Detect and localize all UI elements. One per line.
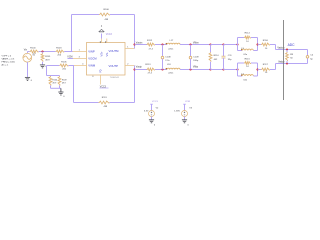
wire VOUTM jog: [134, 45, 136, 49]
wire feedback top-left vertical: [71, 15, 73, 52]
resistor R100: [30, 48, 39, 57]
wire ADC right edge: [307, 50, 309, 64]
inductor L4 parallel: [238, 70, 258, 82]
svg-text:C4: C4: [310, 55, 314, 57]
pin VINM stub: [74, 64, 87, 66]
svg-text:62n: 62n: [244, 80, 248, 82]
wire L17 to Vfiltm: [180, 44, 211, 46]
junction combo top-right: [256, 43, 258, 45]
source V3 1.65V: [174, 108, 192, 117]
svg-text:VOUTM: VOUTM: [109, 49, 120, 53]
op-amp part number: [92, 76, 119, 79]
svg-text:R113: R113: [145, 64, 151, 66]
wire L18 to Vfiltp: [180, 69, 211, 71]
junction C108 bottom: [161, 68, 163, 70]
junction combo top-left: [236, 43, 238, 45]
svg-text:R103: R103: [56, 48, 62, 50]
svg-text:49.9: 49.9: [45, 59, 50, 61]
svg-text:200: 200: [62, 68, 66, 70]
svg-text:10: 10: [246, 66, 249, 68]
svg-text:V3: V3: [189, 108, 192, 110]
svg-text:VAMPL = 0.5: VAMPL = 0.5: [2, 58, 15, 61]
resistor R101 termination: [41, 52, 51, 62]
capacitor C111: [222, 45, 233, 70]
svg-text:C109: C109: [193, 57, 199, 59]
svg-text:R116: R116: [263, 40, 269, 42]
wire R116 to ADC jog: [270, 45, 276, 50]
svg-text:3.3V: 3.3V: [144, 110, 149, 112]
wire top of 49.9 pair: [47, 75, 60, 78]
svg-text:R105: R105: [61, 62, 67, 64]
power label VCC3 at V2: [150, 101, 158, 110]
pin VOCM stub: [73, 57, 87, 59]
net label Vadcp: [278, 62, 285, 64]
svg-text:VS+: VS+: [100, 51, 104, 56]
pin VOUTP stub: [125, 64, 135, 66]
resistor R116: [261, 40, 270, 50]
resistor R9 ADC input: [286, 50, 294, 64]
power symbol VCC3: [99, 25, 113, 36]
svg-text:PD: PD: [99, 69, 102, 73]
wire V2 to ground: [151, 117, 153, 120]
svg-text:AC = 1: AC = 1: [2, 63, 10, 66]
svg-text:VS-: VS-: [105, 52, 109, 56]
junction combo bottom-left: [236, 68, 238, 70]
svg-text:L18: L18: [167, 64, 171, 66]
wire R112 to node: [155, 44, 167, 46]
svg-text:R110: R110: [214, 55, 220, 57]
svg-text:Vfiltm: Vfiltm: [193, 42, 199, 45]
wire to combo top: [224, 44, 238, 46]
svg-text:R111: R111: [102, 97, 108, 99]
op-amp U1 box: [87, 43, 126, 76]
svg-text:C108: C108: [165, 57, 171, 59]
svg-text:THS4541: THS4541: [110, 77, 120, 79]
svg-text:VCC3: VCC3: [100, 86, 107, 88]
resistor R117: [261, 64, 270, 74]
wire input net Vin: [28, 51, 30, 53]
svg-text:Voutp: Voutp: [136, 66, 143, 69]
svg-text:6: 6: [92, 76, 94, 78]
ground under V1: [25, 77, 33, 82]
svg-text:10: 10: [265, 72, 268, 74]
capacitor C108: [161, 45, 171, 70]
wire to C111 bottom: [211, 69, 224, 71]
junction C108 top: [161, 43, 163, 45]
capacitor C12 ADC: [306, 55, 314, 61]
svg-text:L17: L17: [170, 40, 174, 42]
wire bottom of 49.9 pair: [51, 86, 61, 92]
wire R113 to node: [155, 69, 167, 71]
svg-text:R115: R115: [245, 58, 251, 60]
resistor R112: [147, 40, 156, 50]
svg-text:220n: 220n: [168, 49, 174, 51]
wire feedback bottom horizontal right: [110, 102, 135, 104]
wire R117 to ADC jog: [270, 64, 276, 70]
op-amp pin labels: [88, 49, 119, 73]
wire V1 bottom stub: [27, 62, 29, 77]
junction VOUTP: [133, 68, 135, 70]
wire R100 to junction: [39, 51, 56, 53]
ground under V3: [182, 120, 190, 127]
wire combo to R117: [258, 69, 262, 71]
resistor R103: [56, 48, 65, 57]
svg-text:VINP: VINP: [88, 49, 95, 53]
svg-text:R101: R101: [45, 56, 51, 58]
inductor L18: [166, 64, 180, 74]
wire R105 to VINM: [68, 65, 74, 67]
junction R110 bottom: [209, 68, 211, 70]
wire V1 top stub: [27, 52, 29, 54]
svg-text:R114: R114: [245, 33, 251, 35]
junction VOUTM: [133, 43, 135, 45]
junction combo bottom-right: [256, 68, 258, 70]
wire VOUTP jog: [134, 66, 136, 70]
svg-text:VCM: VCM: [185, 101, 190, 103]
inductor L3 parallel: [238, 45, 258, 57]
svg-text:ADC: ADC: [288, 43, 296, 47]
svg-text:1.65V: 1.65V: [174, 110, 180, 112]
svg-text:62n: 62n: [244, 54, 248, 56]
net label Vfiltm: [193, 42, 199, 45]
junction Vfiltm: [189, 43, 191, 45]
svg-text:0: 0: [63, 96, 65, 98]
net label Voutp: [136, 66, 143, 69]
svg-text:499: 499: [104, 106, 108, 108]
svg-text:R117: R117: [263, 64, 269, 66]
resistor R109: [58, 76, 68, 86]
svg-text:VCM: VCM: [67, 56, 72, 58]
wire VS+ to VCC3: [101, 34, 103, 39]
svg-text:C11: C11: [228, 55, 233, 57]
svg-text:+: +: [26, 54, 27, 56]
svg-text:Vfiltp: Vfiltp: [193, 66, 199, 69]
svg-text:VOFF = 0: VOFF = 0: [2, 56, 12, 58]
resistor R106 feedback: [99, 9, 110, 21]
net label VCC3 on PD pin: [100, 86, 109, 88]
net label Voutm: [136, 42, 143, 45]
svg-text:10: 10: [265, 48, 268, 50]
net label Vadcm: [277, 48, 284, 50]
wire to C111 top: [211, 44, 224, 46]
svg-text:VCC3: VCC3: [152, 101, 159, 103]
wire feedback bottom-right vertical: [134, 70, 136, 103]
resistor R104: [49, 76, 58, 86]
wire R101 to ground: [42, 62, 44, 65]
svg-text:49.9: 49.9: [52, 83, 57, 85]
svg-text:200: 200: [57, 55, 61, 57]
svg-text:27.4: 27.4: [149, 49, 154, 51]
junction Radc bottom: [286, 62, 288, 64]
pin VS- stub: [106, 39, 108, 43]
wire feedback top horizontal right: [110, 14, 135, 16]
svg-text:VOUTP: VOUTP: [109, 64, 119, 68]
junction C111 bottom: [222, 68, 224, 70]
ADC boundary line: [283, 20, 285, 100]
resistor R105: [59, 62, 68, 71]
source V2 3.3V: [144, 108, 159, 117]
junction Radc top: [286, 48, 288, 50]
svg-text:FREQ = 100k: FREQ = 100k: [2, 61, 16, 63]
pin VS+ stub: [101, 39, 103, 43]
svg-text:R106: R106: [104, 9, 110, 11]
resistor R115 parallel: [238, 58, 258, 69]
pin arrow marks: [100, 41, 107, 43]
svg-text:50: 50: [290, 58, 293, 60]
wire R105 left corner: [47, 66, 60, 76]
wire feedback top horizontal left: [72, 14, 100, 16]
svg-text:27.4: 27.4: [148, 73, 153, 75]
wire combo to R116: [258, 44, 262, 46]
wire feedback top-right vertical: [134, 15, 136, 45]
svg-text:10: 10: [246, 41, 249, 43]
svg-text:VINM: VINM: [88, 64, 96, 68]
svg-text:220n: 220n: [168, 73, 174, 75]
svg-text:0: 0: [154, 124, 156, 126]
power label VCM at V3: [183, 101, 190, 110]
svg-text:V2: V2: [156, 108, 159, 110]
svg-text:Vin: Vin: [24, 49, 28, 51]
wire VOUTP to R113: [135, 69, 148, 71]
svg-text:VCC3: VCC3: [106, 34, 113, 36]
wire VOUTM to R112: [135, 44, 148, 46]
svg-text:VOCM: VOCM: [88, 56, 97, 60]
svg-text:33p: 33p: [228, 59, 232, 61]
svg-text:499: 499: [105, 19, 109, 21]
svg-text:R112: R112: [147, 40, 153, 42]
svg-text:Vadcp: Vadcp: [278, 62, 285, 64]
wire Vadcm into ADC: [276, 49, 308, 51]
svg-text:442: 442: [214, 59, 218, 61]
wire Vadcp into ADC: [276, 63, 308, 65]
svg-text:R9: R9: [290, 54, 294, 56]
ground under V2: [149, 120, 156, 127]
ground under R101: [40, 65, 48, 68]
pin VINP stub: [73, 50, 87, 52]
svg-text:0: 0: [188, 124, 190, 126]
wire feedback bottom horizontal left: [74, 102, 99, 104]
ADC label: [288, 43, 296, 47]
svg-text:49.9: 49.9: [62, 83, 67, 85]
resistor R111 feedback: [99, 97, 110, 108]
resistor R110: [209, 45, 219, 70]
wire feedback bottom-left vertical: [73, 66, 75, 103]
pin VOUTM stub: [125, 47, 135, 49]
sine source V1: [23, 53, 37, 64]
resistor R113: [145, 64, 155, 74]
wire to combo bottom: [224, 69, 238, 71]
junction C111 top: [222, 43, 224, 45]
junction R110 top: [209, 43, 211, 45]
ground under 49.9 pair: [58, 92, 65, 98]
svg-text:R100: R100: [30, 48, 36, 50]
svg-text:2.2n: 2.2n: [165, 60, 170, 62]
resistor R114 parallel: [238, 33, 258, 45]
net label Vin: [24, 49, 28, 51]
net label Vfiltp: [193, 66, 199, 69]
wire VCM stub on VOCM pin: [68, 58, 74, 60]
inductor L17: [166, 40, 180, 50]
svg-text:R109: R109: [62, 79, 68, 81]
wire R103 to VINP: [64, 51, 72, 53]
svg-text:180p: 180p: [193, 60, 199, 62]
junction input node: [41, 50, 43, 52]
voltage source V1 (VSIN) parameter text: [2, 56, 16, 67]
net label VCM: [67, 56, 72, 58]
capacitor C109: [189, 45, 199, 70]
pin PD stub: [100, 75, 102, 85]
wire V3 to ground: [184, 117, 186, 120]
junction Vfiltp: [189, 68, 191, 70]
svg-text:0: 0: [31, 80, 33, 82]
svg-text:5p: 5p: [310, 58, 313, 60]
